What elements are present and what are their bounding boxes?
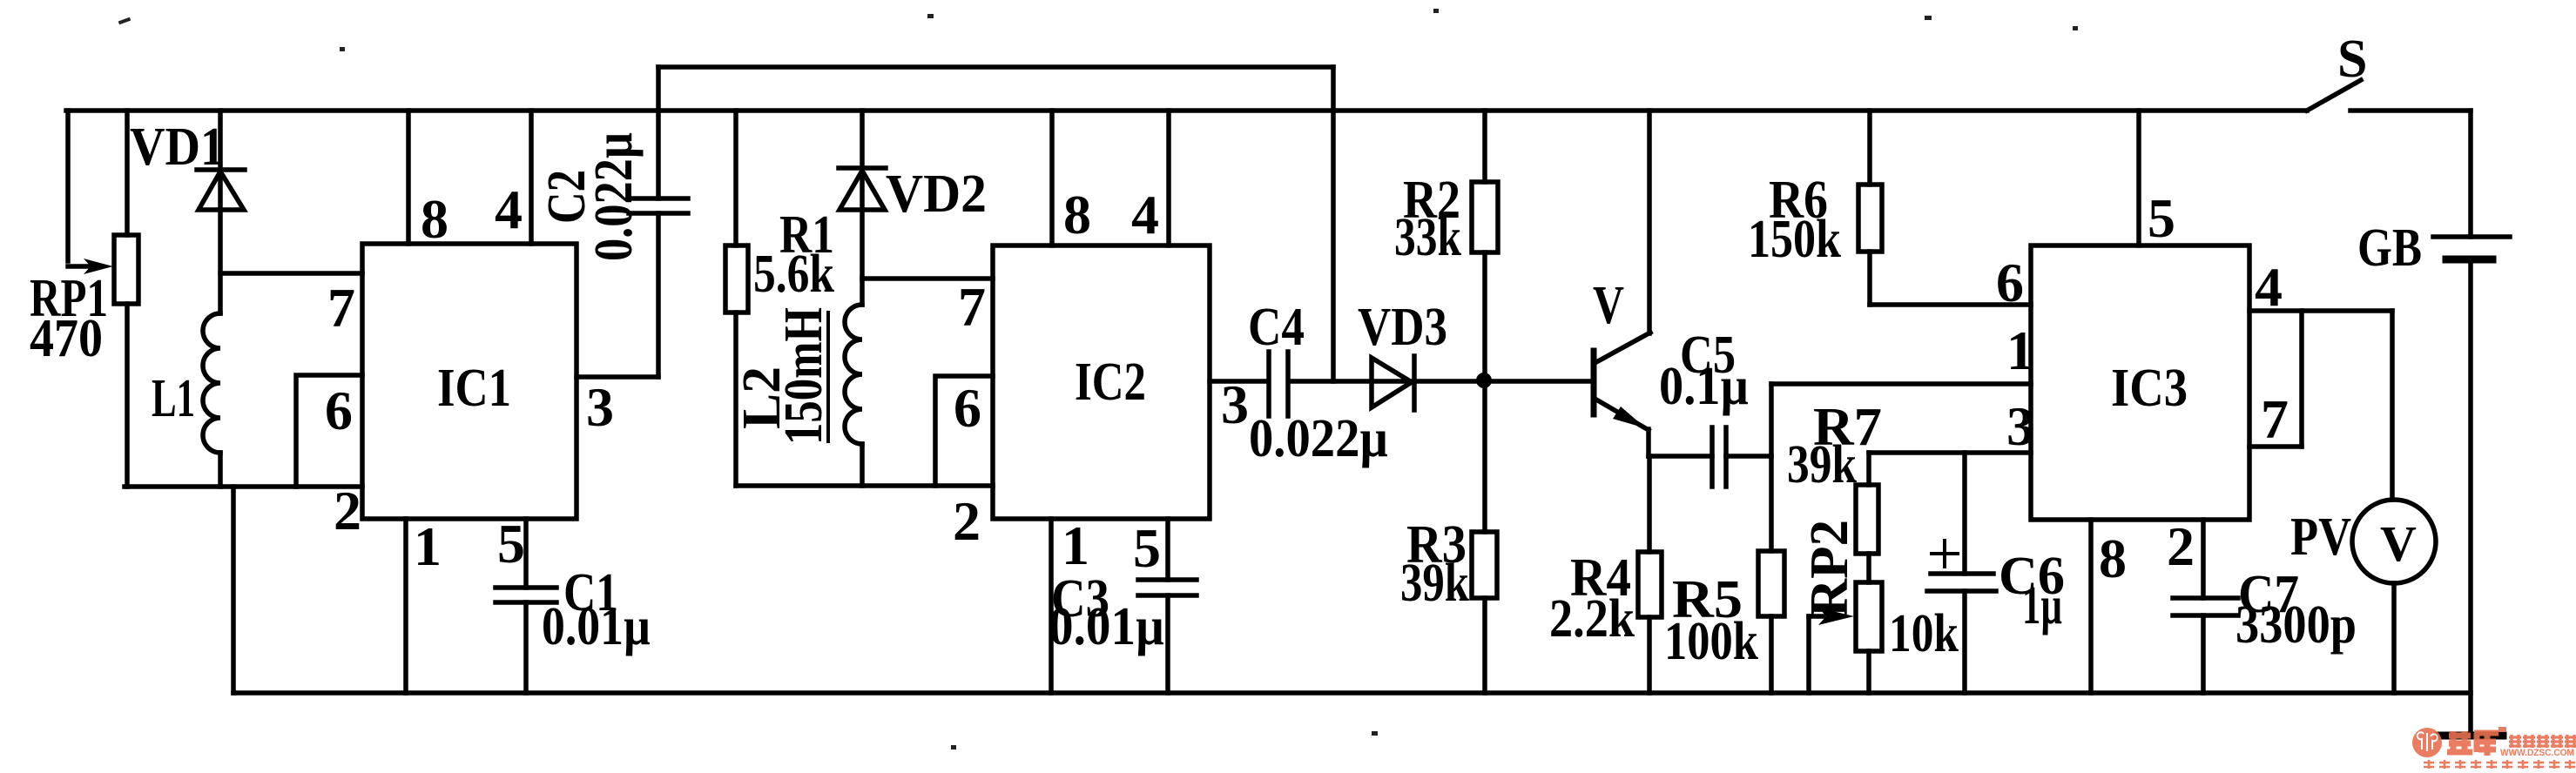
scan speck	[951, 745, 956, 749]
op-amp IC3 box	[2031, 245, 2249, 520]
svg-text:VD2: VD2	[886, 165, 987, 224]
scan speck	[1433, 9, 1439, 13]
capacitor C3 plates	[1138, 580, 1197, 595]
wire IC1 pin4 lead	[529, 111, 534, 244]
wire bypass top	[658, 64, 1333, 70]
svg-text:1: 1	[414, 515, 442, 577]
resistor R4 top lead	[1647, 456, 1652, 552]
capacitor C6 plus sign	[1932, 541, 1958, 567]
wire IC3 pin3	[1869, 450, 2031, 455]
voltmeter PV top lead	[2390, 311, 2395, 500]
watermark slogan row	[2424, 760, 2575, 769]
terminal bar bottom right	[2438, 732, 2503, 740]
inductor L2 bottom lead	[860, 444, 865, 486]
wire emitter to C5	[1649, 454, 1712, 459]
node junction dot	[1476, 373, 1492, 388]
svg-text:L1: L1	[152, 369, 195, 428]
svg-text:4: 4	[2255, 256, 2283, 318]
wire left drop to RP1 wiper	[65, 111, 71, 261]
svg-text:C4: C4	[1248, 298, 1305, 357]
transistor V emitter lead	[1646, 429, 1651, 456]
inductor L1 bottom lead	[218, 453, 223, 487]
svg-text:0.01µ: 0.01µ	[542, 597, 651, 656]
svg-text:10k: 10k	[1889, 604, 1959, 663]
wire rail after switch	[2350, 108, 2471, 113]
resistor R2 top lead	[1482, 111, 1487, 182]
watermark logo circuit lines	[2418, 732, 2438, 751]
wire IC1 pin1 lead	[403, 519, 408, 693]
capacitor C7 plates	[2173, 598, 2238, 615]
wire IC2 pin5 lead	[1165, 519, 1170, 580]
underline 150mH	[826, 311, 830, 443]
svg-text:0.022µ: 0.022µ	[584, 132, 644, 261]
svg-text:1: 1	[1062, 514, 1089, 576]
svg-text:V: V	[2380, 515, 2417, 572]
transistor V collector lead	[1647, 111, 1652, 333]
potentiometer RP1 wiper arrowhead	[84, 259, 113, 274]
svg-text:GB: GB	[2357, 218, 2422, 278]
wire IC3 pin1	[1771, 381, 2031, 386]
svg-text:150k: 150k	[1748, 210, 1841, 269]
svg-text:4: 4	[495, 178, 523, 240]
svg-text:0.1µ: 0.1µ	[1659, 357, 1749, 416]
inductor L2 coil	[845, 305, 862, 444]
resistor R3 bottom lead	[1482, 598, 1487, 693]
capacitor C4 plates	[1269, 352, 1288, 416]
svg-text:3: 3	[1221, 373, 1249, 435]
resistor R5 body	[1758, 551, 1784, 616]
inductor L1 coil	[203, 313, 220, 453]
svg-text:33k: 33k	[1394, 208, 1461, 267]
watermark small chars row	[2509, 735, 2576, 748]
potentiometer RP2 wiper arrow	[1809, 614, 1824, 619]
wire R7 to RP2	[1866, 554, 1871, 582]
resistor R3 top lead	[1482, 380, 1487, 532]
wire IC2 pin6	[935, 376, 993, 486]
wire net y559 left	[125, 484, 362, 489]
capacitor C3 bottom lead	[1165, 595, 1170, 693]
resistor R7 top lead	[1866, 453, 1871, 485]
svg-text:150mH: 150mH	[774, 307, 833, 445]
svg-text:3: 3	[2006, 395, 2034, 457]
svg-text:1µ: 1µ	[2022, 576, 2062, 635]
wire C5 to R5 node	[1726, 454, 1771, 459]
battery GB bottom lead	[2468, 259, 2473, 735]
wire IC3 pin8 lead	[2088, 520, 2094, 693]
wire IC2 pin8 lead	[1049, 111, 1055, 245]
svg-text:4: 4	[1131, 184, 1159, 245]
wire IC1 pin5 lead	[523, 519, 529, 588]
potentiometer RP2 wiper arrowhead	[1818, 608, 1854, 625]
wire IC2 pin3	[1210, 379, 1268, 384]
potentiometer RP1 bottom lead	[125, 304, 130, 487]
wire IC1 pin6	[296, 375, 362, 487]
scan speck	[927, 14, 934, 18]
watermark TM	[2498, 727, 2506, 732]
svg-text:5: 5	[2148, 187, 2175, 249]
svg-text:2.2k: 2.2k	[1549, 589, 1635, 649]
svg-text:2: 2	[334, 480, 361, 541]
capacitor C6 bottom lead	[1962, 591, 1967, 693]
capacitor C2 top lead	[656, 67, 661, 198]
op-amp IC2 box	[993, 245, 1210, 519]
svg-text:5: 5	[1133, 517, 1161, 579]
wire IC3 pin7	[2249, 444, 2302, 449]
wire bottom ground rail	[233, 690, 2471, 696]
svg-text:8: 8	[2099, 528, 2127, 589]
wire IC2 pin1 lead	[1049, 519, 1054, 693]
op-amp IC1 box	[362, 244, 577, 519]
resistor R6 top lead	[1867, 111, 1872, 185]
svg-text:3300p: 3300p	[2235, 595, 2357, 655]
wire IC3 pin4	[2249, 308, 2392, 313]
watermark big char ku	[2474, 732, 2498, 756]
svg-text:S: S	[2337, 30, 2367, 89]
potentiometer RP2 bottom lead	[1866, 651, 1871, 693]
diode VD1 cathode bar	[197, 167, 245, 172]
svg-text:6: 6	[954, 377, 981, 439]
resistor R5 bottom lead	[1769, 616, 1774, 693]
svg-text:5: 5	[497, 513, 525, 575]
resistor R6 bottom lead	[1867, 252, 1872, 305]
svg-text:PV: PV	[2290, 507, 2351, 567]
svg-text:5.6k: 5.6k	[753, 245, 834, 304]
resistor R1 body	[725, 245, 748, 313]
wire IC3 pin2 lead	[2201, 520, 2206, 598]
svg-text:39k: 39k	[1400, 554, 1469, 613]
capacitor C7 bottom lead	[2201, 615, 2206, 693]
svg-text:6: 6	[1996, 252, 2024, 313]
svg-text:0.01µ: 0.01µ	[1049, 597, 1164, 656]
capacitor C2 bottom lead	[656, 213, 661, 377]
wire IC2 pin4 lead	[1166, 111, 1171, 245]
resistor R2 bottom lead	[1482, 252, 1487, 380]
svg-text:3: 3	[586, 376, 614, 438]
svg-text:7: 7	[2261, 388, 2289, 450]
svg-text:RP2: RP2	[1800, 520, 1859, 617]
svg-text:IC1: IC1	[437, 359, 511, 418]
watermark logo circle	[2412, 728, 2442, 757]
wire IC2 pin7	[862, 276, 993, 281]
svg-text:2: 2	[2167, 515, 2195, 577]
transistor V emitter arrowhead	[1613, 407, 1646, 428]
svg-text:VD3: VD3	[1358, 298, 1447, 357]
scan speck	[1925, 16, 1932, 20]
diode VD1 triangle	[199, 171, 244, 210]
battery GB top lead	[2468, 111, 2473, 237]
diode VD2 cathode bar	[839, 165, 886, 171]
svg-text:6: 6	[325, 380, 353, 441]
svg-text:IC3: IC3	[2111, 359, 2188, 418]
svg-text:V: V	[1593, 276, 1624, 335]
wire IC1 pin7	[220, 271, 362, 276]
battery GB short plate	[2446, 256, 2492, 264]
wire IC1 pin3	[577, 374, 658, 380]
watermark big char wei	[2447, 731, 2472, 754]
wire net y558	[736, 483, 993, 488]
scan speck	[118, 17, 131, 25]
resistor R1 bottom lead	[733, 313, 738, 486]
scan speck	[340, 47, 345, 51]
potentiometer RP1 top lead	[125, 111, 130, 235]
svg-text:2: 2	[953, 490, 981, 552]
resistor R4 bottom lead	[1647, 617, 1652, 693]
resistor R4 body	[1638, 552, 1662, 617]
svg-text:0.022µ: 0.022µ	[1249, 409, 1388, 468]
resistor R3 body	[1472, 532, 1497, 598]
voltmeter PV bottom lead	[2391, 583, 2397, 693]
svg-text:IC2: IC2	[1075, 353, 1146, 412]
capacitor C2 plates	[629, 198, 688, 213]
svg-text:WWW.DZSC.COM: WWW.DZSC.COM	[2500, 748, 2574, 758]
potentiometer RP1 wiper arrow	[68, 264, 89, 269]
resistor R7 body	[1856, 485, 1878, 554]
voltmeter PV circle	[2352, 500, 2436, 583]
resistor R5 top lead	[1769, 384, 1774, 551]
battery GB long plate	[2433, 234, 2510, 239]
capacitor C6 top lead	[1962, 453, 1967, 574]
transistor V emitter diagonal	[1596, 400, 1649, 430]
capacitor C5 plates	[1712, 427, 1726, 487]
svg-text:100k: 100k	[1664, 612, 1758, 671]
resistor R6 body	[1858, 185, 1882, 252]
wire pin4 to pin7 link	[2299, 311, 2304, 447]
scan speck	[557, 620, 563, 624]
wire drop to bottom rail	[231, 487, 236, 693]
potentiometer RP2 body	[1856, 582, 1882, 651]
resistor R1 top lead	[733, 111, 738, 245]
svg-text:VD1: VD1	[130, 118, 225, 177]
transistor V base bar	[1591, 351, 1597, 414]
scan speck	[2073, 26, 2078, 30]
potentiometer RP1 body	[114, 235, 138, 304]
scan speck	[1372, 731, 1378, 736]
wire bypass drop	[1331, 67, 1336, 381]
svg-text:7: 7	[958, 276, 986, 338]
diode VD1 top lead	[218, 111, 223, 313]
capacitor C6 plates	[1927, 574, 1996, 591]
potentiometer RP2 wiper lead	[1806, 616, 1811, 693]
resistor R2 body	[1472, 182, 1498, 252]
wire IC1 pin8 lead	[406, 111, 411, 244]
wire IC3 pin6	[1870, 302, 2031, 307]
diode VD2 triangle	[840, 171, 885, 210]
capacitor C1 plates	[496, 588, 556, 602]
wire C4 to VD3	[1289, 379, 1593, 384]
svg-text:7: 7	[327, 277, 355, 339]
svg-text:1: 1	[2006, 319, 2034, 381]
svg-text:8: 8	[421, 188, 448, 250]
wire top supply rail	[66, 108, 2307, 113]
diode VD2 top lead	[860, 111, 865, 305]
diode VD3 triangle	[1372, 358, 1412, 407]
svg-text:39k: 39k	[1787, 435, 1857, 494]
wire IC3 pin5 lead	[2136, 111, 2141, 245]
capacitor C1 bottom lead	[523, 602, 529, 693]
switch S blade	[2307, 80, 2361, 111]
transistor V collector diagonal	[1596, 333, 1650, 362]
svg-text:470: 470	[30, 309, 103, 368]
svg-text:8: 8	[1063, 184, 1091, 245]
diode VD3 cathode bar	[1412, 356, 1417, 410]
